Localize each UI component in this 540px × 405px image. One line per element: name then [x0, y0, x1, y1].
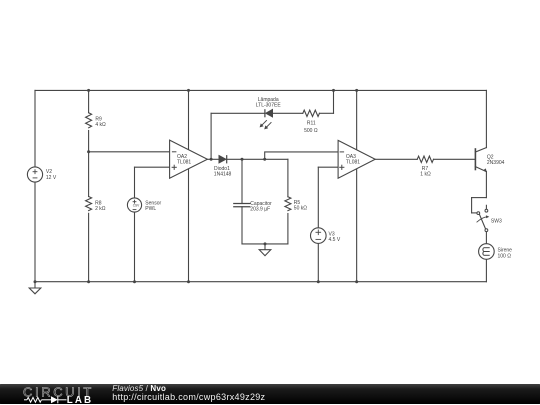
svg-text:500 Ω: 500 Ω	[304, 128, 318, 134]
svg-text:PWL: PWL	[145, 206, 156, 212]
svg-text:50 kΩ: 50 kΩ	[294, 206, 307, 212]
svg-text:LAB: LAB	[67, 395, 93, 405]
svg-text:CSV: CSV	[133, 204, 140, 208]
svg-text:TL081: TL081	[346, 159, 360, 165]
svg-text:1 kΩ: 1 kΩ	[420, 172, 431, 178]
svg-text:1N4148: 1N4148	[214, 172, 232, 178]
svg-text:4.5 V: 4.5 V	[329, 237, 341, 243]
svg-text:SW3: SW3	[491, 219, 502, 225]
svg-text:R11: R11	[307, 121, 316, 127]
svg-text:4 kΩ: 4 kΩ	[95, 122, 106, 128]
svg-text:TL081: TL081	[177, 159, 191, 165]
svg-text:http://circuitlab.com/cwp63rx4: http://circuitlab.com/cwp63rx49z29z	[112, 392, 265, 402]
svg-text:100 Ω: 100 Ω	[498, 253, 512, 259]
svg-text:2N3904: 2N3904	[487, 160, 505, 166]
svg-text:12 V: 12 V	[46, 175, 57, 181]
svg-text:LTL-307EE: LTL-307EE	[256, 103, 282, 109]
svg-text:203.9 µF: 203.9 µF	[250, 207, 270, 213]
svg-text:2 kΩ: 2 kΩ	[95, 206, 106, 212]
